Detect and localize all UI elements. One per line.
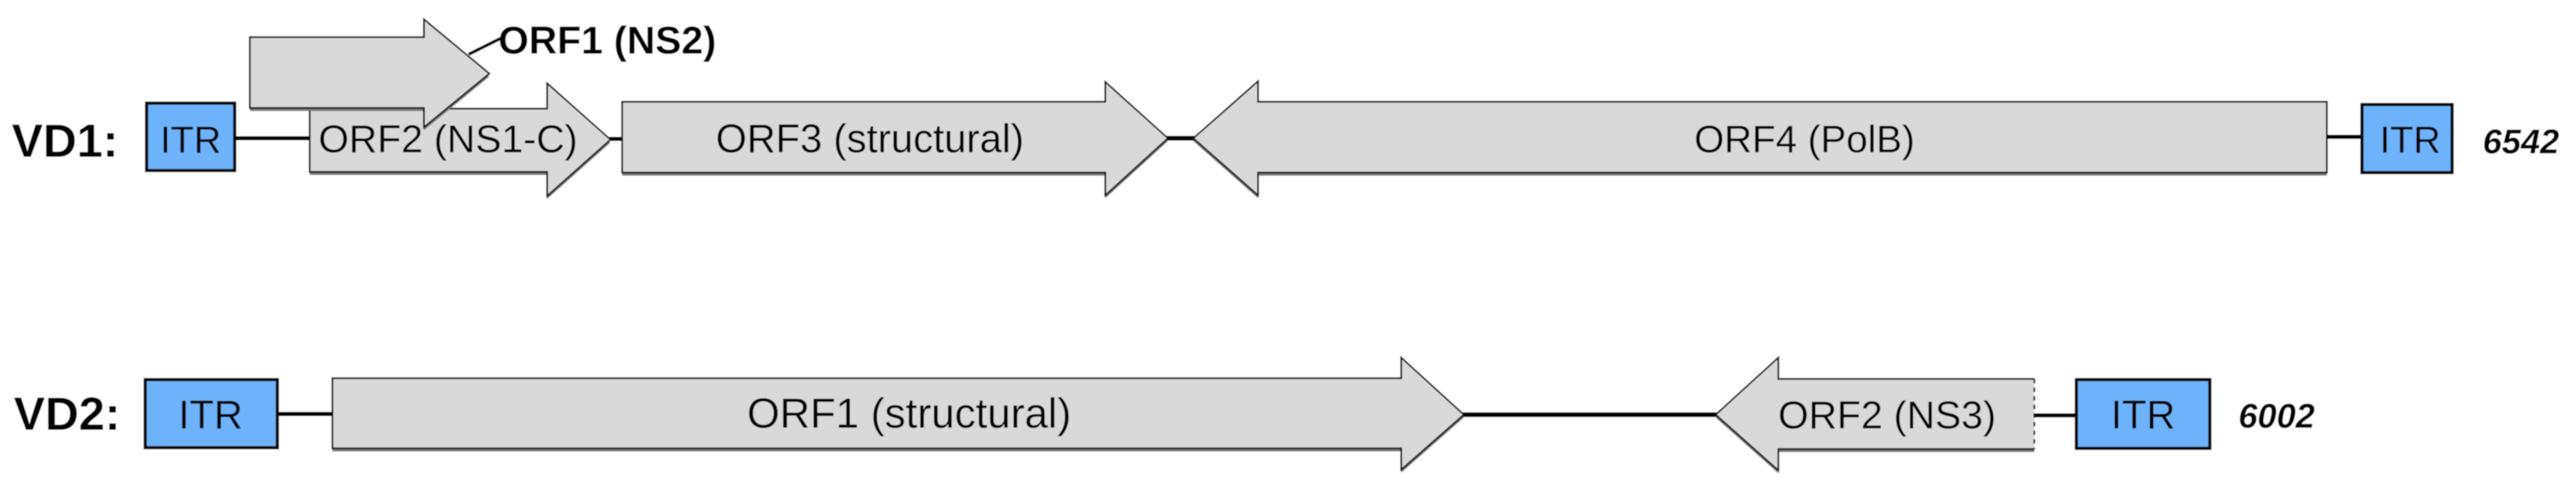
svg-text:ORF1 (structural): ORF1 (structural) — [747, 390, 1071, 437]
svg-text:ORF2 (NS3): ORF2 (NS3) — [1778, 393, 1997, 437]
svg-text:ORF3 (structural): ORF3 (structural) — [716, 117, 1024, 162]
svg-text:VD1:: VD1: — [12, 115, 118, 167]
svg-text:ORF2 (NS1-C): ORF2 (NS1-C) — [319, 118, 578, 162]
svg-text:VD2:: VD2: — [14, 388, 120, 440]
svg-text:ITR: ITR — [160, 118, 222, 161]
svg-text:ORF1 (NS2): ORF1 (NS2) — [498, 19, 716, 63]
svg-text:ORF4 (PolB): ORF4 (PolB) — [1694, 118, 1915, 161]
svg-text:6002: 6002 — [2238, 397, 2314, 435]
svg-text:6542: 6542 — [2482, 122, 2559, 161]
svg-text:ITR: ITR — [2380, 118, 2441, 161]
svg-text:ITR: ITR — [178, 393, 242, 437]
svg-text:ITR: ITR — [2111, 393, 2175, 437]
